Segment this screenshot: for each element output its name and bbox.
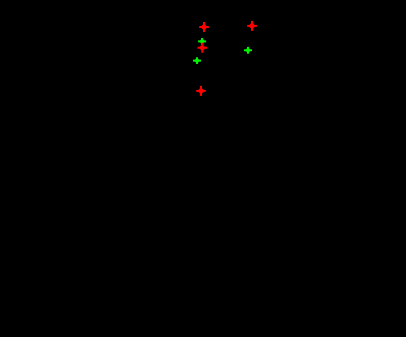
red star D bbox=[198, 43, 208, 53]
green star E bbox=[244, 47, 252, 54]
red star G bbox=[196, 86, 206, 96]
red star B bbox=[247, 21, 257, 31]
green star F bbox=[193, 57, 201, 64]
green star C bbox=[198, 38, 206, 45]
red star A bbox=[199, 22, 209, 32]
